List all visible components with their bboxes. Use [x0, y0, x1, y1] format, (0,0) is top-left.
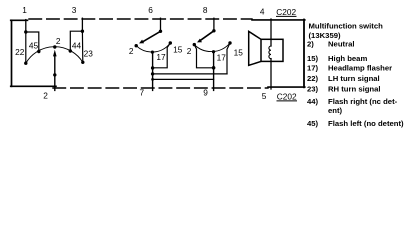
- svg-text:4: 4: [260, 7, 265, 17]
- svg-text:ent): ent): [328, 106, 343, 115]
- wiper common node dot (contact 2): [53, 45, 56, 48]
- dimmer wiper track arc (2 to 15): [136, 43, 170, 52]
- svg-text:22: 22: [15, 47, 25, 57]
- svg-text:5: 5: [262, 91, 267, 101]
- rail end dot: [151, 78, 154, 81]
- wire branch over to contact 44: [70, 31, 82, 51]
- dimmer blade arrowhead: [139, 40, 144, 44]
- flasher contact 2 drop wire: [194, 45, 213, 68]
- turn signal wiper travel arc: [26, 47, 83, 64]
- flasher contact 15 dot: [228, 41, 231, 44]
- svg-text:High beam: High beam: [328, 54, 367, 63]
- svg-text:Multifunction switch: Multifunction switch: [309, 21, 384, 30]
- pin 8 wire: [213, 18, 215, 31]
- svg-text:Flash left (no detent): Flash left (no detent): [328, 119, 404, 128]
- contact 22 dot: [24, 62, 27, 65]
- case bottom border: solid corner segment right: [268, 86, 305, 88]
- svg-text:45): 45): [307, 119, 319, 128]
- horn body rectangle: [261, 39, 283, 61]
- pin 5 wire from horn coil: [270, 59, 272, 89]
- svg-text:7: 7: [139, 88, 144, 98]
- case bottom border: dashed middle: [53, 87, 268, 89]
- pin 3 wire: [81, 18, 83, 31]
- wire branch over to contact 45: [26, 32, 39, 52]
- svg-text:2: 2: [56, 36, 61, 46]
- svg-text:23: 23: [84, 49, 94, 59]
- case top border: solid corner segment right: [252, 19, 305, 21]
- cross wire from dimmer column to flasher bracket: [153, 73, 227, 75]
- bottom rail between columns: [153, 78, 214, 80]
- wiper arrow: [53, 50, 57, 57]
- svg-text:17: 17: [156, 52, 166, 62]
- junction dot on column at cross wire: [151, 72, 154, 75]
- dimmer switch blade: [143, 31, 161, 41]
- dimmer contact 2 dot: [135, 44, 138, 47]
- svg-text:1: 1: [22, 5, 27, 15]
- contact 45 dot: [37, 50, 40, 53]
- dimmer contact 15 dot: [169, 41, 172, 44]
- svg-text:2: 2: [43, 91, 48, 101]
- flasher wiper track arc (2 to 15): [194, 43, 230, 52]
- case bottom border: solid corner segment left: [11, 85, 56, 87]
- flasher blade arrowhead: [197, 39, 202, 43]
- contact 44 dot: [69, 49, 72, 52]
- horn speaker trapezoid: [249, 31, 261, 65]
- svg-text:C202: C202: [276, 7, 296, 17]
- wire branch to contact 22: [25, 32, 27, 63]
- svg-text:LH turn signal: LH turn signal: [328, 74, 380, 83]
- svg-text:Neutral: Neutral: [328, 39, 355, 48]
- dimmer switch pivot dot (pin 6): [159, 30, 162, 33]
- pin 2 wire (wiper shaft through case): [54, 56, 56, 90]
- connector C202 bottom underline: [277, 100, 297, 102]
- svg-text:15: 15: [234, 48, 244, 58]
- pin 9 wire (flasher column through case): [213, 52, 215, 91]
- wire branch to contact 23: [81, 31, 83, 62]
- pin 6 wire: [160, 18, 162, 31]
- pin 4 wire to horn coil: [270, 19, 272, 46]
- case top border: dashed middle: [29, 18, 252, 20]
- svg-text:RH turn signal: RH turn signal: [328, 84, 381, 93]
- pin 1 wire: [25, 20, 27, 32]
- svg-text:44): 44): [307, 97, 319, 106]
- node junction pin3: [81, 30, 84, 33]
- multifunction switch case: dashed box left border: [11, 20, 13, 86]
- svg-text:2: 2: [187, 46, 192, 56]
- horn coil: [269, 46, 271, 59]
- connector C202 top underline: [277, 15, 297, 17]
- svg-text:17): 17): [307, 64, 319, 73]
- flasher switch pivot dot (pin 8): [212, 29, 215, 32]
- svg-text:15): 15): [307, 54, 319, 63]
- turn signal switch: node junction pin1: [24, 30, 27, 33]
- svg-text:3: 3: [72, 5, 77, 15]
- svg-text:22): 22): [307, 74, 319, 83]
- svg-text:17: 17: [217, 53, 227, 63]
- flasher switch blade: [201, 31, 214, 40]
- svg-text:45: 45: [29, 41, 39, 51]
- pin 7 wire (dimmer column through case): [152, 52, 154, 90]
- svg-text:44: 44: [72, 41, 82, 51]
- svg-text:8: 8: [203, 5, 208, 15]
- junction dot on column at 17 bracket: [151, 66, 154, 69]
- svg-text:6: 6: [148, 5, 153, 15]
- svg-text:2): 2): [307, 39, 314, 48]
- svg-text:9: 9: [203, 88, 208, 98]
- svg-text:15: 15: [173, 44, 183, 54]
- contact 17 bracket feed from 15 dot: [153, 43, 171, 68]
- junction dot on flasher column at track: [212, 50, 215, 53]
- svg-text:Flash right (nc det-: Flash right (nc det-: [328, 97, 398, 106]
- junction dot on column at track: [151, 51, 154, 54]
- junction dot at drop wire on column: [212, 66, 216, 70]
- svg-text:Headlamp flasher: Headlamp flasher: [328, 64, 392, 73]
- svg-text:2: 2: [129, 46, 134, 56]
- svg-text:C202: C202: [277, 91, 297, 101]
- flasher 17 bracket feed from 15 dot: [227, 43, 230, 74]
- svg-text:23): 23): [307, 84, 319, 93]
- multifunction switch case: dashed box right border: [303, 20, 305, 88]
- flasher contact 2 dot: [193, 43, 196, 46]
- contact 23 dot: [81, 61, 84, 64]
- wiper pivot dot: [53, 73, 56, 76]
- case top border: solid corner segment left: [11, 19, 28, 21]
